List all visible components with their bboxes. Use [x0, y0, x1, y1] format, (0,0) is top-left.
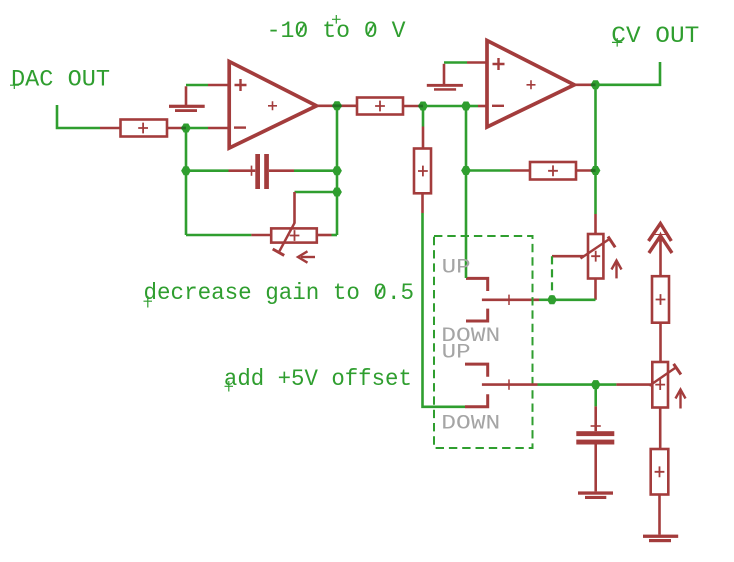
wire pin P1 right	[317, 234, 332, 237]
wire pin R2 right	[403, 105, 423, 108]
switch S1 upper contact	[466, 278, 488, 291]
wire pin R4 left	[510, 169, 530, 172]
wire J12 down to C2	[594, 385, 597, 407]
wire J5 to P1 wiper	[295, 191, 338, 194]
svg-text:UP: UP	[442, 341, 471, 364]
node junction J8	[461, 166, 471, 175]
potentiometer P1 wiper diagonal	[279, 223, 295, 252]
switch S2 pole	[482, 383, 538, 386]
wire pin P1 left	[251, 234, 271, 237]
node junction J9	[591, 80, 601, 89]
origin cross of "-10 to 0 V"	[332, 15, 341, 24]
svg-text:decrease gain to 0.5: decrease gain to 0.5	[144, 280, 415, 306]
potentiometer P3 wiper diagonal	[649, 367, 676, 386]
node junction J3	[181, 166, 191, 175]
wire P2 wiper lead	[552, 255, 584, 258]
wire pin R1 right	[167, 127, 186, 130]
wire pin R2 left	[337, 105, 357, 108]
wire R5 bottom to P3 top	[659, 323, 662, 362]
svg-text:DAC OUT: DAC OUT	[11, 67, 110, 93]
node junction J12	[591, 380, 601, 389]
ground GND2	[427, 84, 463, 91]
wire J2 down right rail	[336, 106, 339, 235]
wire J8 to R4	[466, 169, 510, 172]
ground GND1	[169, 105, 205, 112]
svg-text:CV OUT: CV OUT	[611, 23, 699, 49]
wire pin op-amp2 inverting	[478, 105, 488, 108]
wire pin op-amp1 output	[317, 105, 338, 108]
op-amp U1	[229, 62, 316, 149]
resistor R6	[651, 449, 669, 495]
capacitor C1 plates	[255, 154, 269, 189]
switch S1 lower contact	[466, 309, 488, 321]
wire J1 down left rail	[185, 128, 188, 235]
wire pin R4 right	[576, 169, 596, 172]
wire pin P2 bottom	[594, 279, 597, 300]
origin cross of add text	[225, 381, 234, 392]
potentiometer P2 wiper	[581, 238, 611, 258]
wire pin R3 bottom	[421, 193, 424, 213]
arrow up near P2	[615, 263, 617, 278]
ground GND3	[578, 491, 613, 499]
wire pin op-amp1 inverting	[208, 127, 230, 130]
power symbol origin cross	[655, 234, 667, 236]
node junction J6	[418, 102, 428, 111]
svg-text:DOWN: DOWN	[441, 412, 500, 435]
arrow left near P1	[301, 256, 315, 258]
wire R3 down to S2	[423, 213, 466, 407]
wire P1 wiper lead	[293, 192, 296, 224]
wire bottom rail left	[186, 234, 251, 237]
wire op-amp2 noninv corner	[444, 61, 467, 64]
wire P3 wiper lead	[616, 383, 652, 386]
wire C1 to J4	[294, 169, 337, 172]
switch S1 pole	[482, 298, 539, 301]
wire J11 to P2 bottom	[552, 298, 596, 301]
wire J1 to inverting input	[186, 127, 208, 130]
wire switch1 pole green	[539, 298, 552, 301]
wire P1 right to J5 rail	[332, 234, 338, 237]
wire pin R5 top	[659, 239, 662, 276]
power symbol arrow head	[656, 232, 664, 242]
wire pin op-amp1 noninverting	[208, 84, 230, 87]
ground GND4	[643, 535, 678, 543]
dashed selection box	[434, 236, 533, 448]
wire pin C1 left	[229, 169, 256, 172]
switch S2 lower contact	[465, 394, 488, 407]
origin cross of DAC OUT	[10, 77, 19, 90]
arrow up near P3	[679, 392, 681, 409]
potentiometer P1 body	[271, 228, 317, 242]
slashed zero marks	[298, 24, 384, 297]
potentiometer P2 body	[588, 234, 603, 279]
switch S2 upper contact	[465, 364, 488, 377]
power symbol VCC chevrons	[649, 224, 673, 254]
svg-text:UP: UP	[442, 256, 471, 279]
ground GND2 stub	[443, 64, 446, 85]
node junction J11	[547, 295, 557, 304]
wire pin C1 right	[269, 169, 294, 172]
wire pin op-amp2 output	[575, 84, 596, 87]
resistor R5	[652, 276, 669, 323]
wire pin P3 bottom to R6	[659, 408, 662, 450]
capacitor C2 plates	[576, 431, 614, 444]
resistor R2	[357, 98, 403, 115]
node junction J10	[591, 166, 601, 175]
op-amp U2	[487, 41, 574, 128]
potentiometer P3 body	[652, 362, 668, 408]
resistor R1	[121, 120, 168, 137]
node junction J2	[332, 101, 342, 110]
wire J7 to op-amp2 inverting	[466, 105, 478, 108]
wire pin P2 top	[594, 214, 597, 234]
node junction J7	[461, 102, 471, 111]
wire CV OUT stub	[596, 62, 661, 85]
node junction J4	[332, 166, 342, 175]
origin tick C1	[251, 166, 253, 176]
node junction J5	[332, 188, 342, 197]
wire R3 top green	[422, 106, 425, 127]
origin cross of decrease text	[144, 296, 153, 308]
wire op-amp1 noninv corner	[186, 84, 208, 87]
svg-text:add +5V offset: add +5V offset	[224, 366, 412, 392]
wire J6 to J7	[423, 105, 466, 108]
resistor R3	[414, 149, 431, 194]
wire pin op-amp2 noninverting	[467, 61, 488, 64]
wire DAC OUT stub	[57, 105, 100, 128]
wire J7 down to S1	[465, 106, 468, 278]
wire pin R1 left	[100, 127, 121, 130]
wire J9 down to J10	[594, 85, 597, 171]
node junction J1	[181, 124, 191, 133]
wire J3 to C1	[186, 169, 229, 172]
ground GND1 stub	[185, 86, 188, 105]
origin tick C2	[591, 425, 601, 427]
wire S2 pole to P3	[538, 383, 617, 386]
wire J10 down to P2	[594, 171, 597, 215]
wire pin R3 top	[422, 127, 425, 149]
wire pin R6 bottom	[658, 495, 661, 535]
wire pin C2 bottom	[594, 445, 597, 492]
wire pin C2 top	[594, 406, 597, 431]
origin cross of CV OUT	[612, 38, 622, 47]
wire dashed wiper to J11	[551, 256, 553, 300]
resistor R4	[530, 162, 576, 180]
